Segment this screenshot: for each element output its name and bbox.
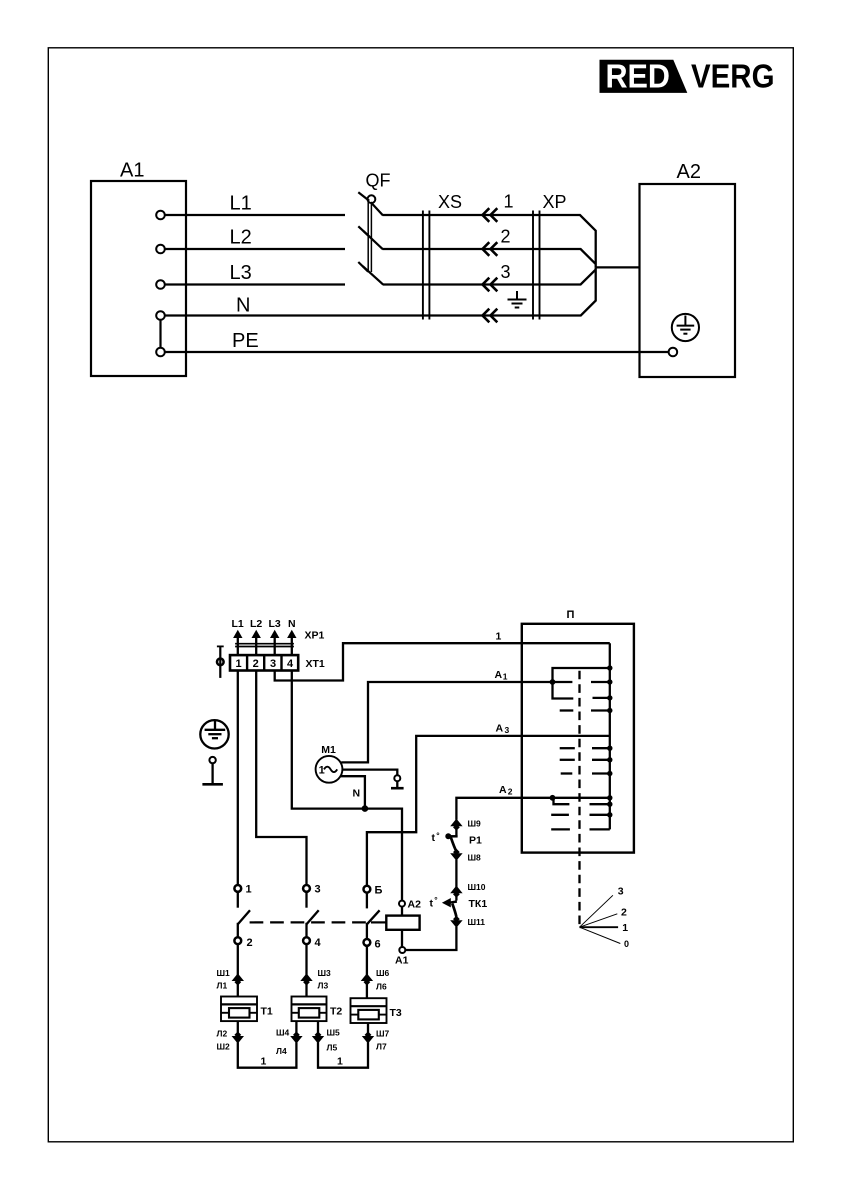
- contact bar row 1-2 right: [591, 681, 610, 683]
- wire Ш8 to Ш10: [455, 860, 457, 889]
- svg-text:N: N: [288, 618, 296, 630]
- wire N-PE link inside A1: [159, 320, 161, 348]
- jumper T1 to T2: [238, 1042, 297, 1067]
- svg-text:°: °: [436, 831, 440, 841]
- wire A2 from selector to thermostat: [456, 798, 609, 820]
- pin shafts XP1 to XT1: [238, 636, 292, 656]
- svg-text:3: 3: [505, 725, 510, 735]
- svg-text:M1: M1: [321, 744, 336, 756]
- svg-text:t: t: [432, 832, 436, 844]
- svg-text:2: 2: [621, 907, 627, 919]
- thermal cutout TK1 terminal Ш11: [450, 916, 462, 928]
- svg-text:Ш1: Ш1: [217, 968, 231, 978]
- switch contact 2: [234, 937, 241, 944]
- switch contact 1: [234, 885, 241, 892]
- wire T2 right leg: [317, 1021, 319, 1034]
- svg-text:2: 2: [253, 658, 259, 670]
- svg-text:2: 2: [501, 227, 511, 247]
- contact bar row 1-4 right: [591, 709, 610, 711]
- selector block П: [522, 624, 634, 853]
- chevron wire 3: [483, 278, 498, 292]
- wire XT1-2 to contact 3: [256, 671, 306, 886]
- svg-text:1: 1: [504, 192, 514, 212]
- svg-text:1: 1: [503, 671, 508, 681]
- svg-text:Р1: Р1: [469, 835, 482, 847]
- svg-text:1: 1: [337, 1056, 343, 1068]
- svg-text:Ш5: Ш5: [327, 1028, 341, 1038]
- svg-text:L1: L1: [230, 193, 252, 215]
- svg-text:3: 3: [618, 886, 624, 898]
- wire L2 QF to bundle: [424, 249, 596, 264]
- connector XP1 arrow N: [287, 630, 296, 638]
- chevron wire 1: [483, 208, 498, 222]
- wire Ш11 to relay A1: [406, 927, 457, 950]
- thermal cutout TK1 terminal Ш10: [450, 886, 462, 898]
- junction N: [362, 805, 369, 812]
- heater T1: [221, 997, 257, 1022]
- svg-text:VERG: VERG: [691, 58, 775, 95]
- svg-text:PE: PE: [232, 330, 259, 352]
- switch contact Б: [364, 886, 371, 893]
- svg-text:L3: L3: [230, 262, 252, 284]
- contact bar row 3-1 right: [590, 803, 610, 805]
- block A1: [91, 181, 186, 376]
- breaker QF pole 3: [358, 262, 424, 285]
- junction dots section 2: [607, 746, 612, 777]
- svg-text:Л4: Л4: [276, 1046, 287, 1056]
- selector cam dashed line: [578, 671, 580, 927]
- relay coil: [386, 916, 419, 930]
- wire contact 6 to T3: [366, 946, 368, 976]
- wire L1 QF to bundle: [424, 215, 596, 267]
- switch contact 6: [364, 939, 371, 946]
- ground symbol between XS and XP: [508, 291, 527, 308]
- svg-text:1: 1: [496, 630, 502, 642]
- svg-text:L2: L2: [250, 618, 262, 630]
- terminal Л2 Ш2: [232, 1031, 244, 1043]
- svg-text:Т2: Т2: [330, 1005, 342, 1017]
- svg-text:RED: RED: [606, 58, 671, 95]
- contact bar row 1-2 left: [553, 681, 573, 683]
- wire PE: [165, 351, 669, 353]
- svg-text:XP1: XP1: [305, 630, 325, 642]
- breaker QF pole 1: [358, 192, 424, 215]
- contact bar row 3-2 left: [551, 814, 569, 816]
- terminal PE of A2: [669, 348, 678, 357]
- svg-text:3: 3: [270, 658, 276, 670]
- wire contact 2 to T1: [237, 944, 239, 976]
- svg-text:1: 1: [246, 884, 252, 896]
- wire contact 4 to T2: [305, 944, 307, 976]
- chevron wire N: [483, 309, 498, 323]
- connector XP1 arrow L3: [270, 630, 279, 638]
- svg-text:XS: XS: [438, 192, 462, 212]
- svg-text:Ш9: Ш9: [468, 818, 482, 828]
- breaker QF linkage bar: [367, 202, 369, 272]
- svg-text:°: °: [434, 895, 438, 905]
- svg-text:Л1: Л1: [217, 981, 228, 991]
- mechanical link to coil: [371, 921, 386, 923]
- svg-text:Ш3: Ш3: [318, 968, 332, 978]
- thermostat P1 contact: [445, 833, 451, 839]
- svg-text:Т3: Т3: [390, 1007, 402, 1019]
- contact bar row 1-3 right: [593, 697, 610, 699]
- svg-text:Л3: Л3: [318, 981, 329, 991]
- terminal L3 of A1: [156, 280, 165, 289]
- wire XT1-4 neutral: [292, 671, 402, 901]
- contact bar row 3-3 right: [590, 828, 610, 830]
- svg-text:Б: Б: [375, 885, 383, 897]
- relay terminal A1: [399, 947, 405, 953]
- selector section 3 bracket: [554, 798, 570, 804]
- wire XT1-3 to switch terminal 1: [275, 643, 610, 680]
- svg-text:2: 2: [247, 937, 253, 949]
- selector section 1 bracket: [553, 668, 610, 699]
- svg-text:L3: L3: [269, 618, 281, 630]
- svg-text:A1: A1: [120, 160, 144, 182]
- svg-text:А: А: [496, 722, 504, 734]
- relay terminal A2: [399, 901, 405, 907]
- terminal PE of A1: [156, 348, 165, 357]
- svg-text:4: 4: [315, 937, 322, 949]
- terminal Ш5 Л5: [312, 1031, 324, 1043]
- contact bars section 2: [560, 748, 610, 773]
- connector XP: [532, 211, 534, 320]
- mechanical link dashed: [250, 921, 369, 923]
- wire L1: [165, 214, 345, 216]
- terminal block XT1: [230, 655, 298, 670]
- terminal Ш3 Л3: [300, 973, 312, 985]
- svg-text:N: N: [353, 788, 361, 800]
- block A2: [640, 184, 736, 377]
- svg-text:Л5: Л5: [327, 1043, 338, 1053]
- svg-text:0: 0: [624, 939, 629, 949]
- wire M1 earth pin: [342, 770, 397, 776]
- chassis pin symbol left: [202, 757, 223, 784]
- svg-text:L2: L2: [230, 227, 252, 249]
- terminal L2 of A1: [156, 245, 165, 254]
- terminal Ш6 Л6: [361, 973, 373, 985]
- svg-text:2: 2: [508, 787, 513, 797]
- connector XP1 arrow L2: [252, 630, 261, 638]
- jumper T2 to T3: [318, 1042, 368, 1067]
- svg-text:N: N: [236, 295, 250, 317]
- wire M1 neutral: [341, 776, 365, 808]
- wire L3: [165, 283, 345, 285]
- wire coil to A1: [401, 930, 403, 947]
- switch contact 3: [303, 885, 310, 892]
- svg-text:3: 3: [315, 884, 321, 896]
- terminal N of A1: [156, 311, 165, 320]
- wire A2 to coil: [401, 907, 403, 916]
- svg-text:Ш7: Ш7: [376, 1029, 390, 1039]
- svg-text:Л6: Л6: [376, 982, 387, 992]
- svg-text:Л2: Л2: [217, 1029, 228, 1039]
- wire T1 bottom: [237, 1021, 239, 1034]
- terminal Ш7 Л7: [362, 1031, 374, 1043]
- svg-text:1: 1: [319, 765, 325, 777]
- protective earth symbol in A2: [672, 314, 699, 341]
- contact bar row 3-3 left: [551, 828, 570, 830]
- wire XT1-1 down: [237, 671, 239, 886]
- svg-text:Ш4: Ш4: [276, 1028, 290, 1038]
- svg-text:6: 6: [375, 939, 381, 951]
- svg-text:1: 1: [236, 658, 242, 670]
- heater T3: [351, 998, 387, 1023]
- wire L2: [165, 248, 345, 250]
- selector bus vertical: [609, 643, 611, 829]
- svg-text:1: 1: [261, 1056, 267, 1068]
- svg-text:1: 1: [622, 922, 628, 934]
- terminal Ш4 Л4: [290, 1031, 302, 1043]
- svg-text:XP: XP: [543, 192, 567, 212]
- heater T2: [292, 997, 327, 1022]
- relay switch pole 3-4: [307, 892, 319, 938]
- svg-text:Л7: Л7: [376, 1042, 387, 1052]
- svg-text:3: 3: [501, 262, 511, 282]
- svg-text:ТК1: ТК1: [469, 898, 488, 910]
- PE pin of connector: [217, 646, 224, 678]
- svg-text:A2: A2: [677, 161, 701, 183]
- contact bar row 3-2 right: [590, 814, 610, 816]
- svg-text:А1: А1: [395, 955, 409, 967]
- svg-text:QF: QF: [366, 171, 391, 191]
- svg-text:А: А: [495, 669, 503, 681]
- terminal L1 of A1: [156, 211, 165, 220]
- chevron wire 2: [483, 242, 498, 256]
- junction dots section 3: [550, 795, 613, 818]
- wire N: [165, 267, 596, 315]
- contact bar row 1-4 left: [560, 709, 574, 711]
- svg-text:Т1: Т1: [261, 1005, 273, 1017]
- svg-text:А2: А2: [408, 899, 422, 911]
- wire L3 QF to bundle: [424, 270, 596, 285]
- svg-text:t: t: [430, 898, 434, 910]
- thermostat P1 terminal Ш9: [450, 819, 462, 831]
- REDVERG logo: [600, 58, 775, 95]
- selector position indicator: [580, 895, 621, 943]
- switch contact 4: [303, 937, 310, 944]
- svg-text:Ш11: Ш11: [468, 917, 486, 927]
- wire M1 to A1 riser: [341, 682, 552, 762]
- breaker QF pole 2: [358, 226, 424, 249]
- earth pin of M1: [391, 775, 404, 788]
- relay switch pole Б-6: [367, 893, 380, 940]
- svg-text:А: А: [499, 784, 507, 796]
- connector XP1 lines: [235, 643, 294, 645]
- svg-text:Ш8: Ш8: [468, 852, 482, 862]
- terminal Ш1 Л1: [232, 973, 244, 985]
- svg-text:4: 4: [287, 658, 294, 670]
- svg-text:Ш6: Ш6: [376, 968, 390, 978]
- wire bundle to A2: [596, 266, 640, 268]
- svg-text:Ш2: Ш2: [217, 1042, 231, 1052]
- relay switch pole 1-2: [238, 892, 250, 938]
- thermostat P1 terminal Ш8: [450, 849, 462, 861]
- junction dots section 1: [550, 665, 613, 713]
- connector XP1 arrow L1: [233, 630, 242, 638]
- motor M1: [316, 756, 343, 783]
- wire A3 from selector to contact Б: [367, 736, 610, 886]
- svg-text:Ш10: Ш10: [468, 882, 486, 892]
- svg-text:XT1: XT1: [306, 658, 325, 670]
- connector XS: [422, 211, 424, 320]
- svg-text:L1: L1: [232, 618, 244, 630]
- svg-text:П: П: [567, 609, 575, 621]
- protective earth symbol left: [200, 720, 228, 748]
- thermal cutout TK1 contact: [442, 898, 451, 907]
